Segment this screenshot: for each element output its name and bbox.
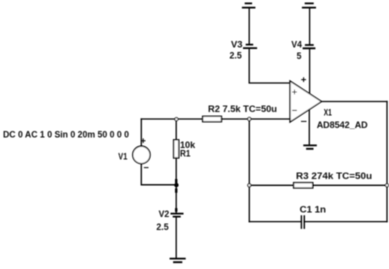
battery V3 <box>244 45 256 49</box>
wire V2 to ground <box>175 217 177 259</box>
wire op-amp negative supply to ground <box>308 110 310 146</box>
wire right vertical feedback <box>386 102 388 222</box>
resistor R1 <box>174 140 179 158</box>
svg-text:DC 0 AC 1 0 Sin 0 20m 50 0 0 0: DC 0 AC 1 0 Sin 0 20m 50 0 0 0 <box>3 130 129 140</box>
svg-text:V1: V1 <box>118 151 127 161</box>
battery V2 <box>171 214 182 217</box>
svg-text:2.5: 2.5 <box>156 222 168 232</box>
ground (top, V4 branch) <box>303 3 315 7</box>
wire R1 top stub <box>175 119 177 140</box>
ground (below op-amp) <box>304 145 316 148</box>
wire source node riser <box>140 119 142 146</box>
junction node at R2/feedback <box>248 117 251 120</box>
resistor R2 <box>203 116 222 121</box>
svg-text:R3 274k TC=50u: R3 274k TC=50u <box>296 171 372 181</box>
wire R1 bottom to battery V2 <box>175 158 177 213</box>
svg-text:AD8542_AD: AD8542_AD <box>317 120 368 130</box>
op-amp inverting input marker - <box>293 109 297 111</box>
wire V3 to op-amp non-inverting input <box>249 48 290 83</box>
ground (top, V3 branch) <box>243 3 255 7</box>
wire C1 left lead <box>249 221 301 223</box>
op-amp U1 triangle <box>290 81 322 122</box>
V1 plus marker <box>141 139 145 143</box>
svg-text:R2 7.5k TC=50u: R2 7.5k TC=50u <box>208 104 277 114</box>
wire R2 to inverting input <box>222 118 291 120</box>
V1 minus marker <box>144 167 148 169</box>
wire R3 right lead <box>313 184 387 186</box>
wire feedback left vertical <box>248 119 250 222</box>
svg-text:X1: X1 <box>324 108 332 118</box>
wire V1 bottom <box>141 164 176 185</box>
svg-text:V4: V4 <box>291 39 302 49</box>
wire R3 left lead <box>249 184 293 186</box>
junction node at V1/V2 <box>175 183 178 186</box>
svg-text:V3: V3 <box>231 39 243 49</box>
resistor R3 <box>294 183 313 188</box>
junction node at R1 top <box>175 118 178 121</box>
battery V4 <box>304 45 315 48</box>
wire node to R2 <box>141 118 202 120</box>
svg-text:5: 5 <box>297 51 302 61</box>
ground (bottom) <box>171 259 185 263</box>
svg-text:R1: R1 <box>180 149 190 159</box>
op-amp negative supply marker - <box>302 120 307 122</box>
op-amp positive supply marker + <box>302 78 306 82</box>
wire V4 ground stem <box>309 8 311 45</box>
wire output <box>322 101 388 103</box>
op-amp non-inverting input marker + <box>293 90 296 93</box>
source V1 <box>133 146 150 163</box>
wire V4 to op-amp positive supply pin <box>309 48 311 94</box>
junction node at R3 left <box>248 184 251 187</box>
wire end nubs near V1/V2 junction <box>175 180 177 210</box>
svg-text:2.5: 2.5 <box>230 50 242 60</box>
svg-text:V2: V2 <box>159 209 170 219</box>
junction node at R3 right <box>385 184 388 187</box>
svg-text:C1 1n: C1 1n <box>300 204 327 214</box>
wire V3 ground stem <box>248 8 250 45</box>
wire C1 right lead <box>304 221 387 223</box>
capacitor C1 <box>301 216 304 228</box>
